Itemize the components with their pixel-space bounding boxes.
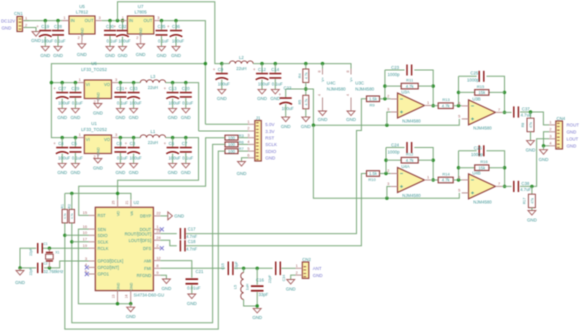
svg-text:C36: C36	[172, 24, 180, 29]
svg-text:U3A: U3A	[401, 90, 409, 95]
svg-text:SCLK: SCLK	[98, 240, 109, 245]
svg-text:LOUT/[DFS]: LOUT/[DFS]	[129, 238, 152, 243]
svg-text:+: +	[167, 24, 170, 29]
svg-text:100: 100	[228, 142, 236, 147]
svg-text:R7: R7	[239, 146, 245, 151]
svg-text:1: 1	[63, 15, 65, 20]
svg-text:CN1: CN1	[14, 11, 23, 16]
svg-text:GPO1: GPO1	[98, 272, 110, 277]
svg-text:U3B: U3B	[472, 97, 480, 102]
svg-text:12: 12	[156, 255, 160, 260]
svg-text:GND: GND	[40, 53, 50, 58]
svg-text:4.7k: 4.7k	[442, 178, 451, 183]
svg-text:DFS: DFS	[143, 246, 151, 251]
svg-text:GND: GND	[265, 156, 276, 161]
svg-text:C14: C14	[271, 67, 279, 72]
svg-text:1000p: 1000p	[471, 152, 484, 157]
svg-text:2: 2	[387, 94, 389, 99]
svg-text:100: 100	[228, 135, 236, 140]
svg-text:GND: GND	[252, 315, 262, 320]
svg-text:GND: GND	[130, 282, 134, 290]
svg-text:+: +	[53, 141, 56, 146]
svg-text:C5: C5	[71, 141, 77, 146]
svg-text:GPO3/[DCLK]: GPO3/[DCLK]	[98, 259, 124, 264]
svg-text:V+: V+	[321, 76, 325, 82]
svg-text:V+: V+	[350, 76, 354, 82]
svg-text:0.1uF: 0.1uF	[158, 38, 169, 43]
svg-text:4.7k: 4.7k	[442, 103, 451, 108]
svg-text:GPO2/[INT]: GPO2/[INT]	[98, 265, 119, 270]
svg-text:+: +	[53, 86, 56, 91]
svg-text:GND: GND	[31, 38, 41, 43]
svg-text:GND: GND	[567, 130, 577, 135]
svg-text:RST: RST	[98, 213, 107, 218]
svg-text:R15: R15	[477, 84, 485, 89]
svg-text:100uF: 100uF	[130, 155, 143, 160]
svg-text:C7: C7	[182, 141, 188, 146]
svg-text:GND: GND	[301, 124, 311, 129]
svg-text:GND: GND	[126, 314, 136, 319]
svg-text:U4A: U4A	[401, 164, 409, 169]
svg-text:+: +	[164, 86, 167, 91]
svg-text:NJM4580: NJM4580	[327, 86, 346, 91]
svg-text:4.7k: 4.7k	[70, 213, 74, 219]
svg-text:SDIO: SDIO	[265, 149, 277, 154]
svg-text:7: 7	[498, 107, 500, 112]
svg-text:U3C: U3C	[355, 80, 364, 85]
svg-text:U1: U1	[91, 121, 97, 126]
svg-text:C19: C19	[41, 24, 49, 29]
svg-text:17: 17	[83, 237, 87, 242]
svg-text:+: +	[253, 67, 256, 72]
svg-text:3: 3	[247, 132, 249, 137]
svg-text:RFGND: RFGND	[137, 273, 152, 278]
svg-text:3: 3	[157, 15, 159, 20]
svg-text:R10: R10	[368, 177, 376, 182]
svg-text:C13: C13	[169, 86, 177, 91]
svg-text:NJM4580: NJM4580	[473, 199, 492, 204]
svg-text:SDIO: SDIO	[98, 233, 108, 238]
svg-text:C21: C21	[196, 269, 204, 274]
svg-text:R14: R14	[442, 172, 450, 177]
svg-text:GND: GND	[217, 96, 227, 101]
svg-text:+: +	[125, 86, 128, 91]
svg-text:SCLK: SCLK	[265, 142, 277, 147]
svg-text:3: 3	[115, 77, 117, 82]
svg-text:C22: C22	[284, 86, 292, 91]
svg-text:IN: IN	[71, 18, 75, 23]
svg-text:8: 8	[156, 263, 158, 268]
svg-text:GND: GND	[567, 144, 577, 149]
svg-text:R4: R4	[298, 73, 302, 78]
svg-text:GND: GND	[57, 170, 67, 175]
svg-text:R16: R16	[480, 159, 488, 164]
svg-text:NJM4580: NJM4580	[473, 125, 492, 130]
svg-text:OUT: OUT	[85, 18, 94, 23]
svg-text:GND: GND	[116, 282, 120, 290]
svg-text:0.01uF: 0.01uF	[187, 285, 201, 290]
svg-text:100uF: 100uF	[172, 38, 185, 43]
svg-text:22uH: 22uH	[148, 85, 158, 90]
svg-text:GND: GND	[118, 53, 128, 58]
svg-text:100uF: 100uF	[258, 81, 271, 86]
svg-text:4.7k: 4.7k	[406, 84, 415, 89]
svg-text:GND: GND	[129, 115, 139, 120]
svg-text:C25: C25	[470, 71, 478, 76]
svg-text:8: 8	[346, 71, 350, 73]
svg-text:100uF: 100uF	[130, 100, 143, 105]
svg-text:L3: L3	[151, 74, 156, 79]
svg-text:GND: GND	[187, 301, 197, 306]
svg-text:DC12V: DC12V	[1, 19, 15, 24]
svg-text:1: 1	[79, 132, 81, 137]
svg-text:Si4734-D60-GU: Si4734-D60-GU	[134, 292, 165, 297]
svg-text:GND: GND	[105, 53, 115, 58]
svg-text:0.1uF: 0.1uF	[55, 38, 66, 43]
svg-text:0.1uF: 0.1uF	[117, 155, 128, 160]
svg-text:3: 3	[115, 132, 117, 137]
svg-text:SEN: SEN	[98, 227, 106, 232]
svg-text:22: 22	[156, 211, 160, 216]
svg-text:LOUT: LOUT	[567, 137, 579, 142]
svg-text:4: 4	[317, 94, 321, 96]
svg-text:3: 3	[387, 181, 389, 186]
svg-text:ANT: ANT	[313, 266, 322, 271]
svg-text:1000p: 1000p	[388, 72, 401, 77]
svg-text:RST: RST	[265, 136, 274, 141]
svg-text:R1: R1	[60, 204, 64, 208]
svg-text:100uF: 100uF	[58, 100, 71, 105]
svg-text:4.7k: 4.7k	[304, 99, 308, 106]
svg-text:C15: C15	[221, 263, 225, 270]
svg-text:0.1uF: 0.1uF	[182, 100, 193, 105]
svg-text:L7805: L7805	[134, 9, 147, 14]
svg-text:1.5k: 1.5k	[369, 97, 378, 102]
svg-text:8: 8	[317, 71, 321, 73]
svg-text:U2: U2	[134, 200, 140, 205]
svg-text:2: 2	[296, 270, 298, 275]
svg-text:6: 6	[247, 153, 249, 158]
svg-text:+: +	[279, 92, 282, 97]
svg-text:C37: C37	[522, 107, 530, 112]
svg-text:GND: GND	[526, 147, 536, 152]
svg-text:1.5k: 1.5k	[369, 171, 378, 176]
svg-text:C28: C28	[54, 24, 62, 29]
svg-text:22uH: 22uH	[236, 66, 246, 71]
svg-text:LF33_TO252: LF33_TO252	[81, 127, 107, 132]
svg-text:16: 16	[83, 224, 87, 229]
svg-text:C17: C17	[188, 227, 196, 232]
svg-text:33pF: 33pF	[259, 292, 269, 297]
svg-text:4.7uF: 4.7uF	[520, 187, 531, 192]
svg-text:C23: C23	[391, 65, 399, 70]
svg-text:22pF: 22pF	[29, 248, 33, 256]
svg-text:0.1uF: 0.1uF	[182, 155, 193, 160]
svg-text:1: 1	[79, 77, 81, 82]
svg-text:3: 3	[99, 15, 101, 20]
svg-text:1000p: 1000p	[388, 150, 401, 155]
svg-text:OUT: OUT	[143, 18, 152, 23]
svg-text:R2: R2	[67, 204, 71, 208]
svg-text:C9: C9	[218, 67, 224, 72]
svg-text:VI: VI	[86, 137, 90, 142]
svg-text:1: 1	[549, 120, 551, 125]
svg-text:LF33_TO252: LF33_TO252	[81, 67, 107, 72]
svg-text:VD: VD	[117, 211, 121, 217]
svg-text:0.1uF: 0.1uF	[272, 81, 283, 86]
svg-text:C26: C26	[474, 146, 482, 151]
svg-text:100uF: 100uF	[41, 38, 54, 43]
svg-text:3: 3	[85, 256, 87, 261]
svg-text:2: 2	[136, 35, 138, 40]
svg-text:R12: R12	[406, 152, 414, 157]
svg-text:R17: R17	[522, 198, 526, 204]
svg-text:GND: GND	[181, 115, 191, 120]
svg-text:R9: R9	[369, 102, 375, 107]
svg-text:1: 1	[247, 119, 249, 124]
svg-text:100uF: 100uF	[118, 38, 131, 43]
svg-text:C24: C24	[391, 142, 399, 147]
svg-text:R11: R11	[406, 78, 414, 83]
svg-text:2: 2	[387, 168, 389, 173]
svg-text:U5: U5	[79, 4, 85, 9]
svg-text:NJM4580: NJM4580	[402, 119, 421, 124]
svg-text:C3: C3	[130, 141, 136, 146]
svg-text:13: 13	[111, 295, 115, 299]
svg-text:X1: X1	[55, 251, 59, 255]
svg-text:GND: GND	[116, 170, 126, 175]
svg-text:C18: C18	[188, 239, 196, 244]
svg-text:GND: GND	[318, 117, 328, 122]
svg-text:GND: GND	[168, 170, 178, 175]
svg-text:100uF: 100uF	[169, 155, 182, 160]
svg-text:VO: VO	[104, 82, 111, 87]
svg-text:C4: C4	[58, 141, 64, 146]
svg-text:GND: GND	[129, 170, 139, 175]
svg-text:ROUT/[DOUT]: ROUT/[DOUT]	[125, 231, 152, 236]
svg-text:15k: 15k	[478, 90, 486, 95]
svg-text:5: 5	[458, 114, 460, 119]
svg-text:R3: R3	[239, 133, 245, 138]
svg-text:47k: 47k	[529, 122, 533, 128]
svg-text:6: 6	[458, 101, 460, 106]
svg-text:R8: R8	[521, 123, 525, 127]
svg-text:6: 6	[458, 175, 460, 180]
svg-text:VO: VO	[104, 137, 111, 142]
svg-text:C8: C8	[116, 141, 122, 146]
svg-text:GND: GND	[257, 96, 267, 101]
svg-text:2: 2	[156, 243, 158, 248]
svg-text:GND: GND	[527, 217, 537, 222]
svg-text:1: 1	[296, 263, 298, 268]
svg-text:GND: GND	[15, 280, 25, 285]
svg-text:R6: R6	[239, 140, 245, 145]
svg-text:0.1uF: 0.1uF	[72, 100, 83, 105]
svg-text:4.7k: 4.7k	[63, 213, 67, 219]
svg-text:22uH: 22uH	[148, 140, 158, 145]
svg-text:3: 3	[549, 134, 551, 139]
svg-text:1: 1	[122, 15, 124, 20]
svg-text:L2: L2	[239, 55, 244, 60]
svg-text:1: 1	[427, 100, 429, 105]
svg-text:RCLK: RCLK	[98, 246, 109, 251]
svg-text:1000p: 1000p	[467, 78, 480, 83]
svg-text:22pF: 22pF	[29, 268, 33, 276]
svg-text:GND: GND	[93, 166, 103, 171]
svg-text:GND: GND	[181, 170, 191, 175]
svg-text:C33: C33	[130, 86, 138, 91]
svg-text:C16: C16	[256, 278, 264, 283]
svg-text:19: 19	[83, 243, 87, 248]
svg-text:GND: GND	[237, 171, 247, 176]
svg-text:+: +	[125, 141, 128, 146]
svg-text:L7812: L7812	[76, 9, 89, 14]
svg-text:9: 9	[156, 270, 158, 275]
svg-text:22pF: 22pF	[268, 274, 272, 283]
svg-text:L5: L5	[233, 285, 237, 289]
svg-text:2: 2	[549, 127, 551, 132]
svg-text:U4B: U4B	[472, 171, 480, 176]
svg-text:+: +	[36, 24, 39, 29]
svg-text:4.7k: 4.7k	[406, 158, 415, 163]
svg-text:GND: GND	[136, 52, 146, 57]
svg-text:GND: GND	[157, 53, 167, 58]
svg-text:14: 14	[125, 295, 129, 299]
svg-text:100: 100	[228, 149, 236, 154]
svg-text:GND: GND	[286, 286, 296, 291]
svg-text:4.7nF: 4.7nF	[186, 246, 197, 251]
svg-text:GND: GND	[53, 53, 63, 58]
svg-text:GND: GND	[168, 115, 178, 120]
svg-text:VA: VA	[130, 211, 134, 216]
svg-text:GND: GND	[171, 53, 181, 58]
svg-text:VI: VI	[86, 82, 90, 87]
svg-text:FMI: FMI	[144, 266, 151, 271]
svg-text:4: 4	[346, 94, 350, 96]
svg-text:R13: R13	[442, 97, 450, 102]
svg-text:C12: C12	[258, 67, 266, 72]
svg-text:C32: C32	[119, 24, 127, 29]
svg-text:1: 1	[427, 175, 429, 180]
svg-text:5.0V: 5.0V	[265, 122, 274, 127]
svg-text:L1: L1	[151, 129, 156, 134]
svg-text:+: +	[114, 24, 117, 29]
svg-text:GND: GND	[71, 170, 81, 175]
svg-text:AMI: AMI	[144, 258, 151, 263]
svg-text:C1: C1	[43, 242, 47, 246]
svg-text:DBYP: DBYP	[140, 214, 151, 219]
svg-text:21: 21	[125, 201, 129, 205]
svg-text:2: 2	[25, 22, 27, 27]
svg-text:ROUT: ROUT	[567, 123, 580, 128]
svg-text:100uF: 100uF	[58, 155, 71, 160]
svg-text:2: 2	[247, 126, 249, 131]
svg-text:C2: C2	[43, 262, 47, 266]
svg-text:GND: GND	[57, 115, 67, 120]
svg-text:C6: C6	[169, 141, 175, 146]
svg-text:GND: GND	[116, 115, 126, 120]
svg-text:0.1uF: 0.1uF	[72, 155, 83, 160]
svg-text:100uF: 100uF	[282, 106, 295, 111]
svg-text:4.7k: 4.7k	[304, 72, 308, 79]
svg-text:GND: GND	[2, 26, 12, 31]
svg-text:C38: C38	[521, 181, 529, 186]
svg-text:3: 3	[387, 107, 389, 112]
svg-text:GND: GND	[346, 117, 356, 122]
svg-text:GND: GND	[93, 111, 103, 116]
svg-text:5: 5	[247, 146, 249, 151]
svg-text:U7: U7	[138, 4, 144, 9]
svg-text:IN: IN	[129, 18, 133, 23]
svg-text:CN2: CN2	[302, 257, 311, 262]
svg-text:U6: U6	[91, 61, 97, 66]
svg-text:15: 15	[83, 210, 87, 215]
svg-text:+: +	[213, 67, 216, 72]
svg-text:47k: 47k	[530, 198, 534, 204]
svg-text:0.1uF: 0.1uF	[107, 38, 118, 43]
svg-text:R5: R5	[298, 100, 302, 105]
svg-text:5: 5	[458, 188, 460, 193]
svg-text:1uH: 1uH	[246, 283, 250, 290]
svg-text:C20: C20	[182, 86, 190, 91]
svg-text:C29: C29	[71, 86, 79, 91]
svg-text:GND: GND	[71, 115, 81, 120]
svg-text:GND: GND	[313, 273, 323, 278]
svg-text:C35: C35	[158, 24, 166, 29]
svg-text:1: 1	[25, 16, 27, 21]
svg-text:NJM4580: NJM4580	[402, 193, 421, 198]
svg-text:GND: GND	[162, 286, 172, 291]
svg-text:+: +	[164, 141, 167, 146]
svg-text:GND: GND	[174, 214, 184, 219]
svg-text:U4C: U4C	[327, 80, 336, 85]
svg-text:0.1uF: 0.1uF	[117, 100, 128, 105]
svg-text:C34: C34	[282, 275, 286, 282]
svg-text:7: 7	[498, 181, 500, 186]
svg-text:C27: C27	[58, 86, 66, 91]
svg-text:100uF: 100uF	[218, 81, 231, 86]
svg-text:NJM4580: NJM4580	[355, 86, 374, 91]
svg-text:GND: GND	[77, 52, 87, 57]
svg-text:CN4: CN4	[557, 116, 566, 121]
svg-text:100uF: 100uF	[169, 100, 182, 105]
svg-text:3.3V: 3.3V	[265, 129, 274, 134]
svg-text:GND: GND	[539, 157, 549, 162]
svg-text:25: 25	[112, 201, 116, 205]
svg-text:J1: J1	[256, 116, 261, 121]
svg-text:GND: GND	[281, 124, 291, 129]
svg-text:2: 2	[78, 35, 80, 40]
svg-text:32.768kHz: 32.768kHz	[43, 269, 63, 274]
